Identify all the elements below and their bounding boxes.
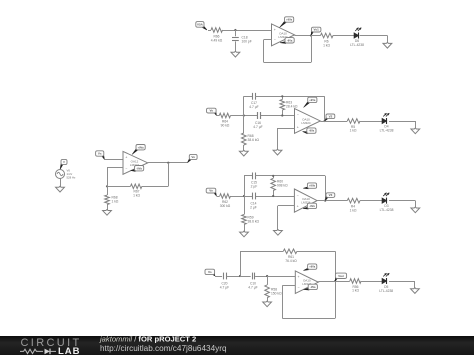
svg-text:-9Va: -9Va — [309, 204, 315, 208]
svg-text:−: − — [297, 193, 299, 197]
svg-text:Vo: Vo — [209, 109, 213, 113]
svg-text:C142 µF: C142 µF — [250, 202, 257, 210]
svg-text:R671 kΩ: R671 kΩ — [133, 190, 140, 198]
svg-text:Vout: Vout — [338, 274, 344, 278]
svg-text:-9Va: -9Va — [309, 129, 315, 133]
svg-text:−: − — [298, 286, 300, 290]
svg-text:+: + — [297, 205, 299, 209]
svg-text:+9Va: +9Va — [286, 18, 293, 22]
svg-text:−: − — [297, 113, 299, 117]
svg-text:−: − — [274, 38, 276, 42]
svg-text:−: − — [125, 167, 127, 171]
svg-text:+: + — [274, 28, 276, 32]
svg-text:Vo: Vo — [209, 189, 213, 193]
svg-text:R561 kΩ: R561 kΩ — [352, 285, 359, 293]
svg-text:+9Va: +9Va — [309, 184, 316, 188]
svg-text:+9Va: +9Va — [309, 98, 316, 102]
svg-text:+9Va: +9Va — [138, 145, 145, 149]
svg-text:V3: V3 — [329, 193, 333, 197]
svg-text:Vo: Vo — [191, 155, 195, 159]
svg-text:+9Va: +9Va — [309, 265, 316, 269]
svg-text:Vs: Vs — [98, 152, 102, 156]
svg-text:-9Va: -9Va — [287, 38, 293, 42]
svg-text:+: + — [125, 156, 127, 160]
svg-text:LAB: LAB — [58, 346, 81, 355]
svg-text:OA10LM324: OA10LM324 — [301, 117, 311, 125]
svg-text:-9Va: -9Va — [136, 166, 142, 170]
svg-text:Vo: Vo — [208, 270, 212, 274]
svg-text:http://circuitlab.com/c47j8u64: http://circuitlab.com/c47j8u6434yrq — [100, 344, 227, 353]
svg-text:jaktommil / fOR pROJECT 2: jaktommil / fOR pROJECT 2 — [99, 334, 196, 343]
svg-text:V5A: V5A — [197, 23, 204, 27]
svg-text:Vo1: Vo1 — [314, 28, 320, 32]
svg-text:-9Va: -9Va — [310, 285, 316, 289]
svg-text:+: + — [297, 126, 299, 130]
svg-text:C152 µF: C152 µF — [251, 181, 258, 189]
svg-text:+: + — [298, 275, 300, 279]
svg-text:V2: V2 — [329, 114, 333, 118]
